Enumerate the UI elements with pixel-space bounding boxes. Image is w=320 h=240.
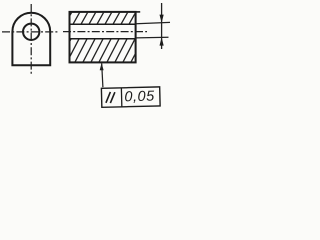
arrowhead down at upper extension bbox=[160, 15, 164, 23]
frame divider bbox=[120, 88, 122, 107]
extension line upper (bore top) bbox=[136, 22, 170, 23]
hole bore lower line bbox=[70, 38, 136, 40]
hatching upper band bbox=[64, 10, 145, 26]
vertical centerline of left view bbox=[30, 4, 32, 74]
top edge overshoot bbox=[136, 11, 141, 13]
hole circle in left view bbox=[23, 24, 39, 40]
leader arrowhead on bottom face bbox=[100, 63, 104, 70]
left view outline (rounded-top lug) bbox=[12, 13, 50, 66]
extension line lower (bore bottom) bbox=[136, 36, 168, 39]
parallelism symbol bbox=[106, 92, 111, 103]
leader line to frame bbox=[102, 64, 103, 88]
hatching lower band bbox=[58, 37, 152, 64]
svg-text:0,05: 0,05 bbox=[124, 89, 155, 106]
horizontal centerline of left view bbox=[2, 31, 58, 33]
section view rectangle bbox=[70, 12, 136, 63]
section view centerline bbox=[63, 31, 147, 33]
dimension line vertical bbox=[161, 3, 163, 49]
arrowhead up at lower extension bbox=[160, 37, 164, 45]
feature control frame bbox=[101, 87, 160, 107]
hole bore upper line bbox=[70, 23, 136, 25]
